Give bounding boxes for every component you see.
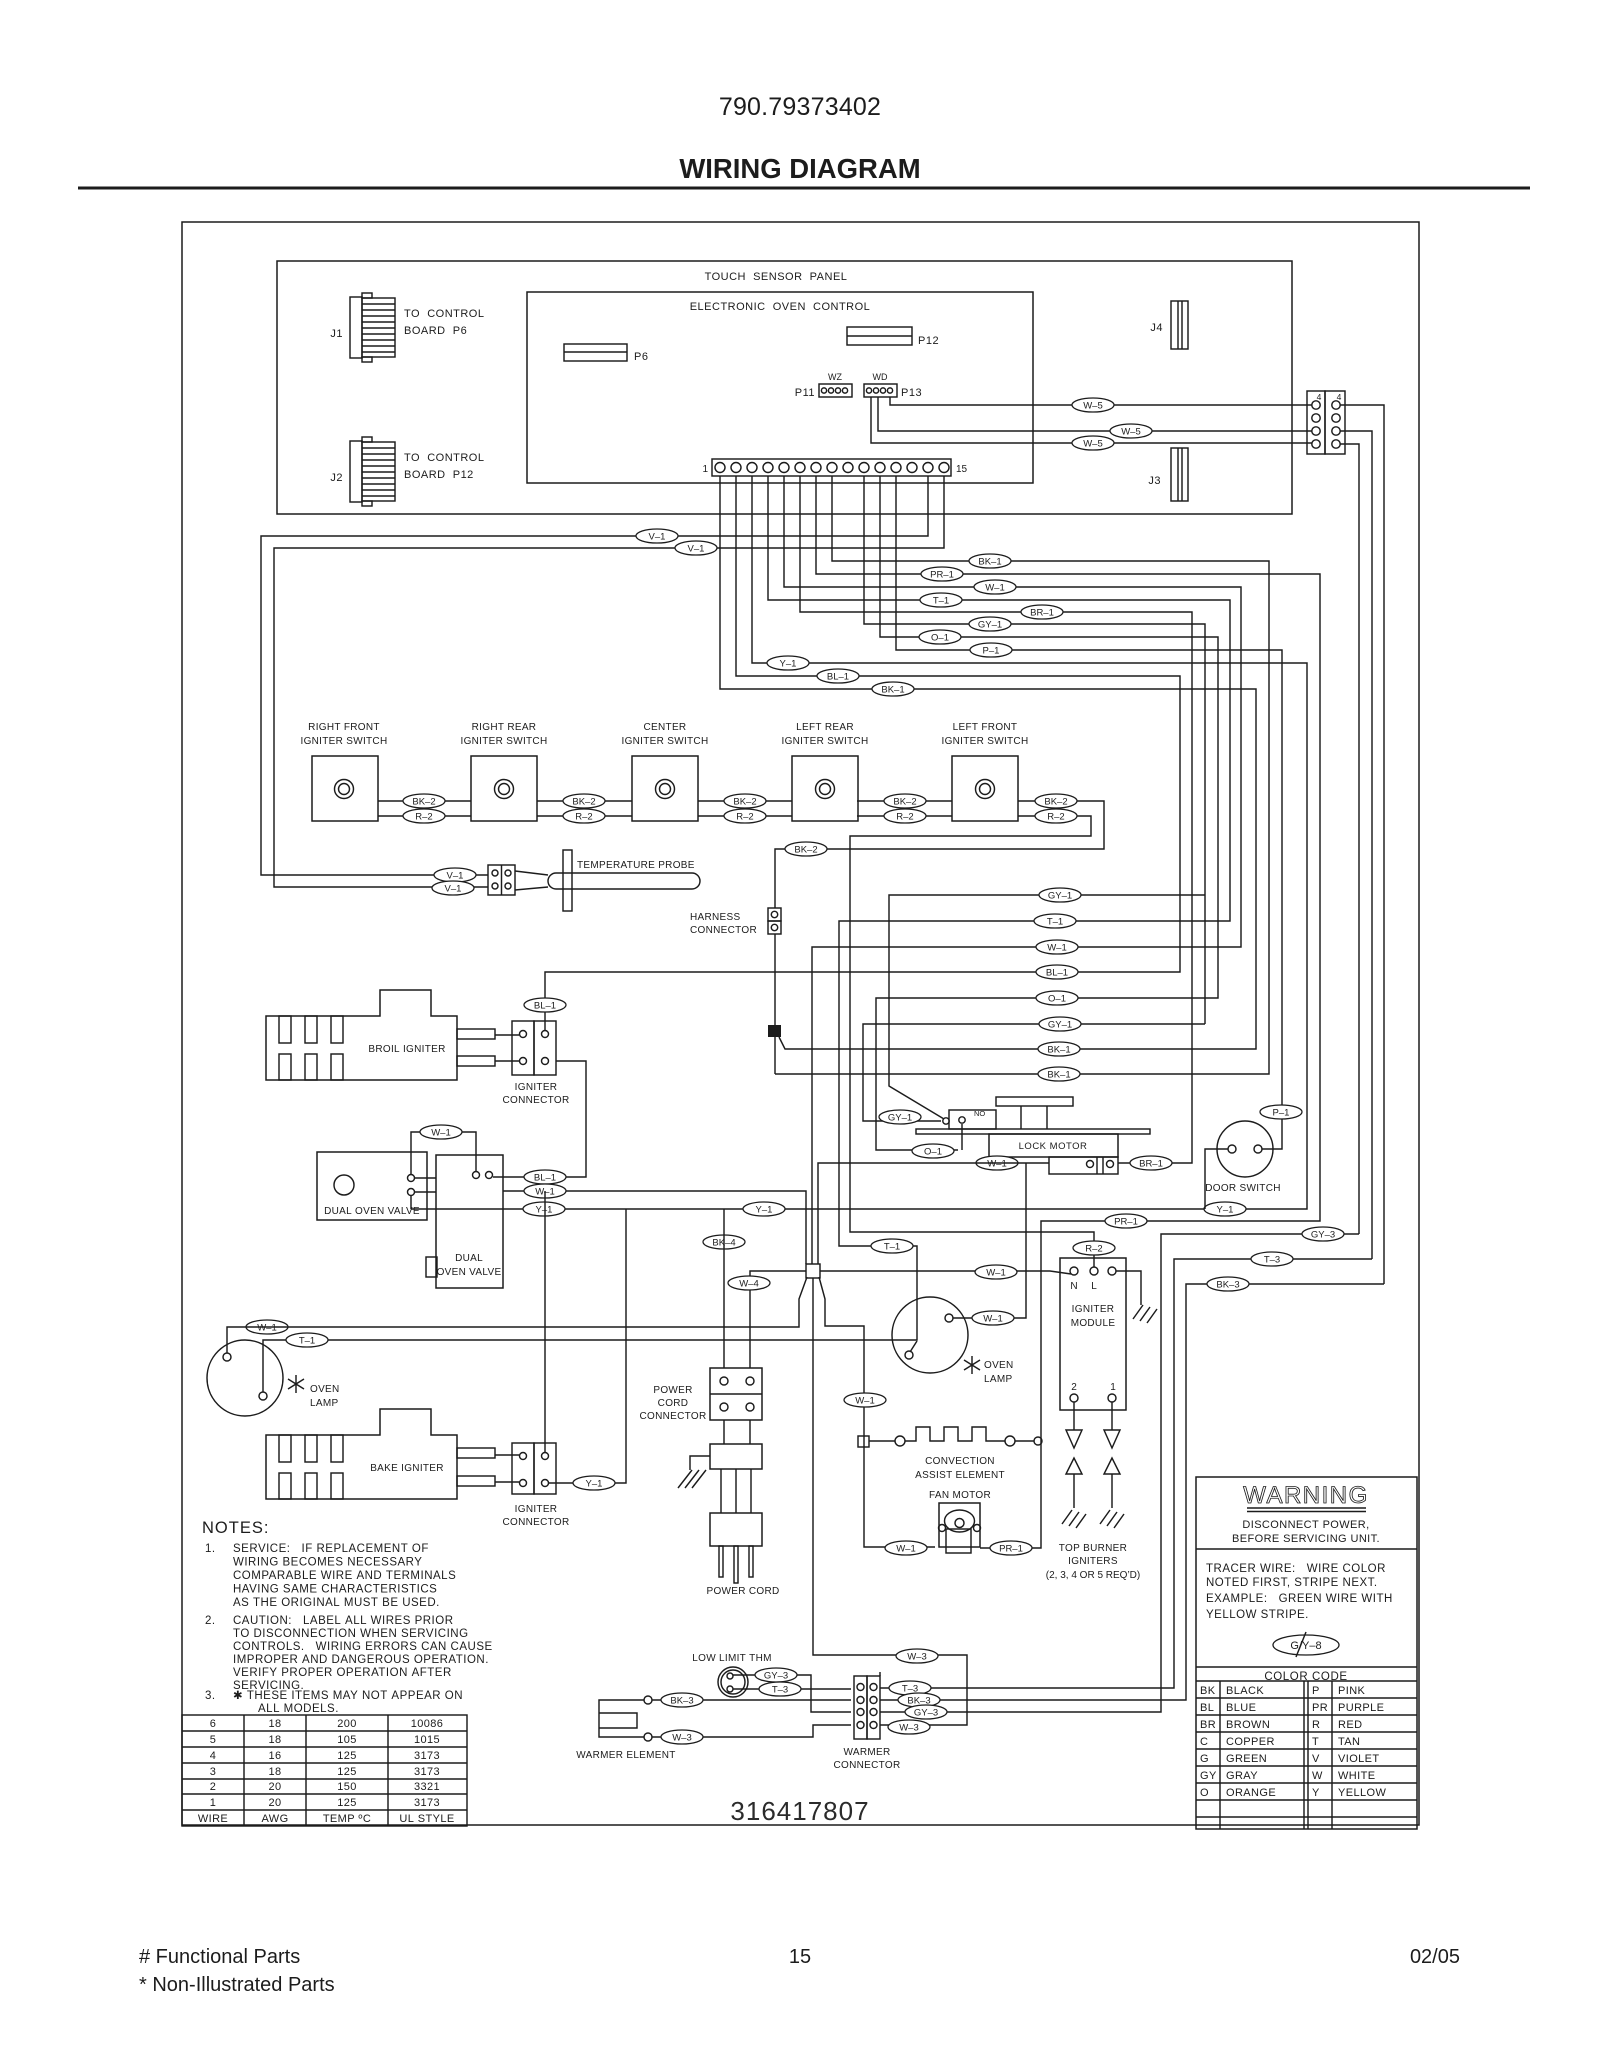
wire BK-4 (723, 1209, 725, 1368)
oval G/Y-8 example (1273, 1632, 1339, 1657)
svg-text:VERIFY PROPER OPERATION AFTER: VERIFY PROPER OPERATION AFTER (233, 1667, 452, 1679)
svg-text:1.: 1. (205, 1543, 216, 1555)
svg-text:PURPLE: PURPLE (1338, 1702, 1384, 1714)
svg-text:CORD: CORD (658, 1398, 689, 1409)
svg-text:Y–1: Y–1 (1217, 1205, 1234, 1216)
svg-text:BLACK: BLACK (1226, 1685, 1264, 1697)
svg-text:R–2: R–2 (415, 812, 432, 823)
svg-text:BL–1: BL–1 (827, 672, 849, 683)
oval R-2 (884, 809, 926, 823)
wire W-3 warmer (652, 1725, 851, 1737)
svg-text:BK: BK (1200, 1685, 1216, 1697)
oval BK-4 (703, 1235, 745, 1249)
oval O-1 (1036, 991, 1078, 1005)
svg-text:V–1: V–1 (649, 532, 666, 543)
oval Y-1 bake (573, 1476, 615, 1490)
oval PR-1 mid (1105, 1214, 1147, 1228)
igniter switch left front SW5 (942, 722, 1029, 821)
svg-text:Y: Y (1312, 1787, 1320, 1799)
svg-text:W–5: W–5 (1083, 439, 1103, 450)
svg-text:ASSIST ELEMENT: ASSIST ELEMENT (915, 1470, 1005, 1481)
warmer element HTR4 (576, 1696, 675, 1761)
broil igniter connector (503, 1021, 570, 1106)
svg-text:T–1: T–1 (884, 1242, 900, 1253)
wire GY-1 pin10 (864, 476, 1205, 1024)
svg-text:DISCONNECT POWER,: DISCONNECT POWER, (1242, 1519, 1369, 1531)
svg-text:RED: RED (1338, 1719, 1362, 1731)
svg-text:IGNITER SWITCH: IGNITER SWITCH (301, 736, 388, 747)
svg-text:PR–1: PR–1 (1114, 1217, 1138, 1228)
svg-text:TOUCH SENSOR PANEL: TOUCH SENSOR PANEL (705, 271, 848, 283)
oval W-1 valve right (524, 1184, 566, 1198)
wire node up to W-1 lock line (818, 1163, 1049, 1264)
svg-text:Y–1: Y–1 (780, 659, 797, 670)
svg-text:BK–3: BK–3 (670, 1696, 693, 1707)
svg-text:BR–1: BR–1 (1139, 1159, 1163, 1170)
svg-text:IGNITER: IGNITER (515, 1504, 558, 1515)
oval W-1 conv (844, 1393, 886, 1407)
svg-text:T–1: T–1 (1047, 917, 1063, 928)
svg-text:W–5: W–5 (1083, 401, 1103, 412)
wire door switch left (1205, 1149, 1228, 1209)
svg-text:* Non-Illustrated Parts: * Non-Illustrated Parts (139, 1974, 335, 1996)
oval T-1 mid (871, 1239, 913, 1253)
svg-text:IGNITER SWITCH: IGNITER SWITCH (622, 736, 709, 747)
oval R-2 (563, 809, 605, 823)
dual oven valve B (426, 1155, 503, 1288)
oval GY-1 (1039, 888, 1081, 902)
wire W-5 c (871, 397, 1312, 443)
oval BR-1 (1021, 605, 1063, 619)
svg-text:O: O (1200, 1787, 1209, 1799)
oval W-1 lamp2 (972, 1311, 1014, 1325)
svg-text:WARNING: WARNING (1243, 1482, 1369, 1509)
oval W-1 (1036, 940, 1078, 954)
svg-text:2: 2 (210, 1781, 217, 1793)
svg-text:WIRE: WIRE (198, 1813, 228, 1825)
svg-text:BK–2: BK–2 (1044, 797, 1067, 808)
oval R-2 (1035, 809, 1077, 823)
svg-text:BOARD P6: BOARD P6 (404, 325, 467, 337)
svg-text:1015: 1015 (414, 1734, 440, 1746)
wire PR-1 pin7 (816, 476, 1320, 1548)
oval BK-1 (1038, 1067, 1080, 1081)
svg-text:P–1: P–1 (1273, 1108, 1290, 1119)
svg-text:T–1: T–1 (933, 596, 949, 607)
oval W-3 warmer (661, 1730, 703, 1744)
svg-text:RIGHT FRONT: RIGHT FRONT (308, 722, 380, 733)
svg-text:COMPARABLE WIRE AND TERMINALS: COMPARABLE WIRE AND TERMINALS (233, 1570, 456, 1582)
ground power cord (678, 1456, 710, 1488)
oval T-1 (1034, 914, 1076, 928)
svg-text:ALL MODELS.: ALL MODELS. (258, 1703, 339, 1715)
svg-text:GY–3: GY–3 (764, 1671, 788, 1682)
svg-text:WARMER: WARMER (844, 1747, 891, 1758)
svg-text:CAUTION: LABEL ALL WIRES PRI: CAUTION: LABEL ALL WIRES PRIOR (233, 1615, 454, 1627)
wire W-5 b (878, 397, 1312, 431)
svg-text:TAN: TAN (1338, 1736, 1360, 1748)
connector P12 (847, 327, 939, 347)
svg-text:T: T (1312, 1736, 1319, 1748)
door switch S1 (1205, 1121, 1281, 1194)
svg-text:1: 1 (702, 464, 708, 475)
svg-text:BK–2: BK–2 (893, 797, 916, 808)
svg-text:HAVING SAME CHARACTERISTICS: HAVING SAME CHARACTERISTICS (233, 1584, 437, 1596)
wire BK-2 chain (378, 801, 1104, 908)
wire GY-1 lock motor diagonal (889, 895, 1205, 1119)
svg-text:CONNECTOR: CONNECTOR (640, 1411, 707, 1422)
oval O-1 lock (912, 1144, 954, 1158)
wire O-1 pin11 (876, 476, 1218, 1150)
oval V-1 (636, 529, 678, 543)
svg-text:BL–1: BL–1 (1046, 968, 1068, 979)
svg-text:PR–1: PR–1 (999, 1544, 1023, 1555)
svg-text:Y–1: Y–1 (536, 1205, 553, 1216)
svg-text:IGNITERS: IGNITERS (1068, 1556, 1118, 1567)
svg-text:W–1: W–1 (896, 1544, 916, 1555)
oval T-1 lamp (286, 1333, 328, 1347)
svg-text:V: V (1312, 1753, 1320, 1765)
svg-text:BK–2: BK–2 (572, 797, 595, 808)
wire GY-3 net (880, 1234, 1359, 1712)
oval R-2 module (1073, 1241, 1115, 1255)
svg-text:BK–1: BK–1 (1047, 1070, 1070, 1081)
oval GY-1 (969, 617, 1011, 631)
svg-text:3.: 3. (205, 1690, 216, 1702)
svg-text:V–1: V–1 (445, 884, 462, 895)
svg-text:BK–3: BK–3 (1216, 1280, 1239, 1291)
svg-text:CONNECTOR: CONNECTOR (690, 925, 757, 936)
wire T-1 lamp2 branch (910, 1341, 917, 1352)
wire W-1 node to module N (820, 1271, 1071, 1274)
tracer wire note (1206, 1563, 1393, 1621)
wire T-3 net (880, 1259, 1372, 1688)
svg-text:CONNECTOR: CONNECTOR (503, 1517, 570, 1528)
oval BK-1 (872, 682, 914, 696)
wire gauge table (182, 1715, 467, 1826)
svg-text:J1: J1 (330, 328, 343, 340)
color code table (1196, 1667, 1417, 1829)
connector J1 (330, 293, 484, 362)
svg-text:P12: P12 (918, 335, 939, 347)
svg-text:TO DISCONNECTION WHEN SERVICIN: TO DISCONNECTION WHEN SERVICING (233, 1628, 469, 1640)
svg-text:2.: 2. (205, 1615, 216, 1627)
svg-text:NOTES:: NOTES: (202, 1519, 269, 1537)
power cord connector P1 (640, 1368, 762, 1422)
svg-text:18: 18 (268, 1734, 281, 1746)
svg-text:BK–2: BK–2 (733, 797, 756, 808)
4-pin connector block pair (1307, 391, 1345, 454)
oval W-4 (728, 1276, 770, 1290)
svg-text:IGNITER: IGNITER (515, 1082, 558, 1093)
svg-text:GY–1: GY–1 (1048, 891, 1072, 902)
wire W-5 right 1 (1340, 405, 1384, 1284)
dual oven valve A (317, 1152, 436, 1220)
igniter switch center SW3 (622, 722, 709, 821)
svg-text:V–1: V–1 (688, 544, 705, 555)
svg-text:2: 2 (1071, 1382, 1077, 1393)
svg-text:125: 125 (337, 1797, 357, 1809)
svg-text:6: 6 (210, 1718, 217, 1730)
oval W-1 lock (976, 1156, 1018, 1170)
svg-text:18: 18 (268, 1766, 281, 1778)
svg-text:ELECTRONIC OVEN CONTROL: ELECTRONIC OVEN CONTROL (690, 301, 871, 313)
svg-text:R–2: R–2 (1047, 812, 1064, 823)
svg-text:3: 3 (210, 1766, 217, 1778)
svg-text:NO: NO (974, 1109, 985, 1118)
svg-text:150: 150 (337, 1781, 357, 1793)
ground module (1133, 1305, 1157, 1323)
svg-text:W–1: W–1 (987, 1159, 1007, 1170)
oval V-1 probe (434, 868, 476, 882)
svg-text:# Functional Parts: # Functional Parts (139, 1946, 300, 1968)
top burner igniter spark 2 (1062, 1402, 1086, 1528)
wire W-1 valve loop (411, 1132, 476, 1174)
oval GY-1 lock (879, 1110, 921, 1124)
oval PR-1 fan (990, 1541, 1032, 1555)
svg-text:BK–1: BK–1 (881, 685, 904, 696)
node harness junction (768, 1025, 781, 1037)
svg-text:18: 18 (268, 1718, 281, 1730)
oval BK-1 (1038, 1042, 1080, 1056)
svg-text:3173: 3173 (414, 1750, 440, 1762)
svg-text:02/05: 02/05 (1410, 1946, 1460, 1968)
svg-text:BK–1: BK–1 (978, 557, 1001, 568)
svg-text:W–1: W–1 (257, 1323, 277, 1334)
oval BL-1 (1036, 965, 1078, 979)
electronic oven control box U1 (527, 292, 1033, 483)
wire node diag right W-1 (819, 1277, 935, 1547)
svg-text:15: 15 (789, 1946, 811, 1968)
svg-text:BEFORE SERVICING UNIT.: BEFORE SERVICING UNIT. (1232, 1533, 1380, 1545)
svg-text:15: 15 (956, 464, 968, 475)
svg-text:BROWN: BROWN (1226, 1719, 1270, 1731)
svg-text:YELLOW STRIPE.: YELLOW STRIPE. (1206, 1609, 1309, 1621)
svg-text:WHITE: WHITE (1338, 1770, 1375, 1782)
oval P-1 (970, 643, 1012, 657)
svg-text:CONNECTOR: CONNECTOR (834, 1760, 901, 1771)
temperature probe TP1 (488, 850, 700, 911)
oval W-5 (1110, 424, 1152, 438)
svg-text:UL STYLE: UL STYLE (399, 1813, 454, 1825)
svg-text:LAMP: LAMP (310, 1398, 338, 1409)
svg-text:RIGHT REAR: RIGHT REAR (472, 722, 537, 733)
wire T-1 pin4 (263, 476, 1230, 1392)
svg-text:IMPROPER AND DANGEROUS OPERATI: IMPROPER AND DANGEROUS OPERATION. (233, 1654, 489, 1666)
oval Y-1 mid (743, 1202, 785, 1216)
svg-text:GY–1: GY–1 (1048, 1020, 1072, 1031)
svg-text:BLUE: BLUE (1226, 1702, 1256, 1714)
svg-text:R–2: R–2 (1085, 1244, 1102, 1255)
connector J2 (330, 437, 484, 506)
wire P-1 pin12 (896, 476, 1282, 1149)
touch sensor panel box (277, 261, 1292, 514)
wire BL-1 valve (493, 1061, 586, 1177)
svg-text:GRAY: GRAY (1226, 1770, 1258, 1782)
svg-text:BK–2: BK–2 (412, 797, 435, 808)
svg-text:CONTROLS. WIRING ERRORS CAN: CONTROLS. WIRING ERRORS CAN CAUSE (233, 1641, 493, 1653)
oval W-1 (974, 580, 1016, 594)
svg-text:125: 125 (337, 1750, 357, 1762)
oval W-3 top (896, 1649, 938, 1663)
wire module pin3 to ground (1116, 1271, 1141, 1305)
oval Y-1 door (1204, 1202, 1246, 1216)
svg-text:R: R (1312, 1719, 1320, 1731)
svg-text:1: 1 (210, 1797, 217, 1809)
igniter module U2 (1060, 1258, 1126, 1410)
svg-text:J3: J3 (1148, 475, 1161, 487)
svg-text:T–3: T–3 (772, 1685, 788, 1696)
connector J3 (1148, 448, 1188, 501)
wire R-2 chain (378, 816, 1094, 1267)
wire V-1 pin15 (274, 476, 944, 887)
oval W-1 valve loop (420, 1125, 462, 1139)
svg-text:TOP BURNER: TOP BURNER (1059, 1543, 1127, 1554)
oval GY-3 right (905, 1705, 947, 1719)
svg-text:BOARD P12: BOARD P12 (404, 469, 474, 481)
svg-text:COPPER: COPPER (1226, 1736, 1275, 1748)
svg-text:WZ: WZ (828, 372, 842, 382)
svg-text:BROIL IGNITER: BROIL IGNITER (368, 1044, 445, 1055)
wire W-1 valve to node (503, 1191, 806, 1264)
svg-text:LOCK MOTOR: LOCK MOTOR (1019, 1141, 1088, 1152)
svg-text:Y–1: Y–1 (756, 1205, 773, 1216)
wire Y-1 bake (549, 1209, 626, 1483)
svg-text:(2, 3, 4 OR 5 REQ’D): (2, 3, 4 OR 5 REQ’D) (1046, 1570, 1140, 1581)
svg-text:POWER: POWER (653, 1385, 692, 1396)
oval W-3 right (888, 1720, 930, 1734)
oval R-2 (724, 809, 766, 823)
wire BK-3 warmer (652, 1699, 851, 1701)
connector J4 (1150, 301, 1188, 349)
svg-text:J4: J4 (1150, 322, 1163, 334)
oval W-1 module N (975, 1265, 1017, 1279)
svg-text:20: 20 (268, 1781, 281, 1793)
svg-text:WIRING DIAGRAM: WIRING DIAGRAM (679, 153, 920, 184)
oval V-1 probe (432, 881, 474, 895)
svg-text:IGNITER SWITCH: IGNITER SWITCH (461, 736, 548, 747)
svg-text:TRACER WIRE: WIRE COLOR: TRACER WIRE: WIRE COLOR (1206, 1563, 1386, 1575)
oval Y-1 valve (523, 1202, 565, 1216)
svg-text:10086: 10086 (411, 1718, 444, 1730)
svg-text:AS THE ORIGINAL MUST BE USED.: AS THE ORIGINAL MUST BE USED. (233, 1597, 440, 1609)
wire BK-3 net (880, 1284, 1384, 1700)
svg-text:G/Y–8: G/Y–8 (1290, 1640, 1321, 1652)
wire W-3 net from node (813, 1278, 967, 1725)
broil igniter HTR1 (266, 990, 519, 1080)
oval T-3 top (1251, 1252, 1293, 1266)
oval W-5 (1072, 398, 1114, 412)
svg-text:16: 16 (268, 1750, 281, 1762)
svg-text:4: 4 (210, 1750, 217, 1762)
wire W-5 right 4 (1340, 444, 1359, 1234)
oval GY-1 (1039, 1017, 1081, 1031)
wire node diag left W-1 (227, 1277, 807, 1353)
svg-text:R–2: R–2 (736, 812, 753, 823)
svg-text:HARNESS: HARNESS (690, 912, 740, 923)
svg-text:BR: BR (1200, 1719, 1216, 1731)
lock motor M1 (916, 1097, 1150, 1174)
svg-text:AWG: AWG (261, 1813, 288, 1825)
power cord assembly W1 (707, 1420, 780, 1597)
svg-text:O–1: O–1 (924, 1147, 942, 1158)
convection assist element HTR3 (858, 1427, 1042, 1481)
svg-text:W: W (1312, 1770, 1323, 1782)
label top burner igniters (1046, 1543, 1140, 1581)
svg-text:GY–3: GY–3 (1311, 1230, 1335, 1241)
oval BK-2 (1035, 794, 1077, 808)
wire BK-1 pin8 (775, 476, 1269, 1074)
svg-text:200: 200 (337, 1718, 357, 1730)
svg-text:BR–1: BR–1 (1030, 608, 1054, 619)
svg-text:DUAL: DUAL (455, 1253, 483, 1264)
svg-text:W–1: W–1 (986, 1268, 1006, 1279)
svg-text:GY–1: GY–1 (888, 1113, 912, 1124)
svg-text:IGNITER SWITCH: IGNITER SWITCH (942, 736, 1029, 747)
svg-text:✱ THESE ITEMS MAY NOT APPEAR O: ✱ THESE ITEMS MAY NOT APPEAR ON (233, 1690, 463, 1702)
connector P6 (564, 344, 648, 363)
svg-text:C: C (1200, 1736, 1208, 1748)
svg-text:L: L (1091, 1281, 1097, 1292)
svg-text:O–1: O–1 (1048, 994, 1066, 1005)
oval P-1 door (1260, 1105, 1302, 1119)
svg-text:OVEN: OVEN (984, 1360, 1014, 1371)
wire BK-1 pin1 (720, 476, 1256, 1049)
svg-text:3321: 3321 (414, 1781, 440, 1793)
oval BK-2 (724, 794, 766, 808)
igniter switch left rear SW4 (782, 722, 869, 821)
oval T-1 (920, 593, 962, 607)
fan motor M2 (929, 1490, 991, 1553)
svg-text:5: 5 (210, 1734, 217, 1746)
oval GY-3 top (1302, 1227, 1344, 1241)
svg-text:W–1: W–1 (983, 1314, 1003, 1325)
svg-text:W–1: W–1 (985, 583, 1005, 594)
oval BK-2 harness (785, 842, 827, 856)
svg-text:MODULE: MODULE (1071, 1318, 1116, 1329)
oval Y-1 (767, 656, 809, 670)
oven lamp DS1 (207, 1340, 340, 1416)
connector P13 (864, 372, 922, 399)
svg-text:P: P (1312, 1685, 1320, 1697)
svg-text:W–5: W–5 (1121, 427, 1141, 438)
svg-text:W–1: W–1 (431, 1128, 451, 1139)
svg-text:SERVICE: IF REPLACEMENT OF: SERVICE: IF REPLACEMENT OF (233, 1543, 429, 1555)
svg-text:P13: P13 (901, 387, 922, 399)
svg-text:TO CONTROL: TO CONTROL (404, 452, 484, 464)
svg-text:T–3: T–3 (1264, 1255, 1280, 1266)
svg-text:IGNITER SWITCH: IGNITER SWITCH (782, 736, 869, 747)
svg-text:BK–1: BK–1 (1047, 1045, 1070, 1056)
svg-text:GY–3: GY–3 (914, 1708, 938, 1719)
wire W-1 lamp2 (953, 1163, 1026, 1318)
svg-text:BL: BL (1200, 1702, 1214, 1714)
svg-text:T–1: T–1 (299, 1336, 315, 1347)
svg-text:TEMPERATURE PROBE: TEMPERATURE PROBE (577, 860, 695, 871)
svg-text:EXAMPLE: GREEN WIRE WITH: EXAMPLE: GREEN WIRE WITH (1206, 1593, 1393, 1605)
oval W-1 lamp (246, 1320, 288, 1334)
oval BK-2 (884, 794, 926, 808)
svg-text:3173: 3173 (414, 1766, 440, 1778)
wire GY-3 thm (733, 1675, 851, 1712)
svg-text:TO CONTROL: TO CONTROL (404, 308, 484, 320)
wire node left W-4 (750, 1271, 806, 1368)
oval O-1 (919, 630, 961, 644)
svg-text:N: N (1070, 1281, 1077, 1292)
igniter switch right front SW1 (301, 722, 388, 821)
oval BK-1 (969, 554, 1011, 568)
svg-text:1: 1 (1110, 1382, 1116, 1393)
